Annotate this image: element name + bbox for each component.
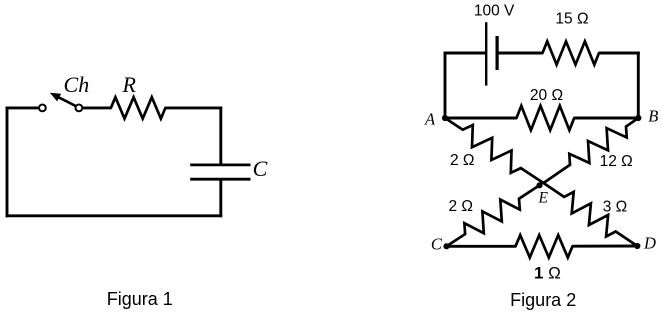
battery short plate (-): [496, 36, 499, 70]
wire battery to resistor 15 ohm: [497, 52, 542, 55]
switch Ch lever arm: [57, 97, 75, 106]
resistor 12 ohm (B to E): [544, 118, 639, 183]
svg-text:Figura 1: Figura 1: [107, 289, 173, 309]
svg-text:3 Ω: 3 Ω: [603, 199, 628, 216]
wire fig2 top-left horizontal to battery: [444, 52, 487, 55]
svg-text:B: B: [648, 107, 658, 126]
svg-text:2 Ω: 2 Ω: [448, 198, 473, 215]
battery long plate (+): [485, 22, 487, 85]
svg-text:C: C: [253, 156, 268, 181]
switch Ch terminal circle left: [39, 105, 46, 112]
node B: [635, 115, 641, 121]
node C: [443, 243, 449, 249]
resistor 20 ohm: [517, 106, 575, 130]
svg-text:Figura 2: Figura 2: [510, 290, 576, 310]
switch Ch terminal circle right: [76, 105, 83, 112]
capacitor C top plate: [190, 163, 250, 166]
wire fig1 left side: [6, 107, 9, 218]
wire fig2 top-right vertical: [637, 52, 640, 119]
node D: [634, 243, 640, 249]
wire fig2 top-left vertical: [444, 52, 447, 119]
switch Ch lever arrowhead: [50, 93, 61, 102]
svg-text:1 Ω: 1 Ω: [534, 264, 561, 283]
svg-text:R: R: [121, 72, 136, 97]
resistor R: [111, 97, 165, 118]
svg-text:A: A: [424, 109, 436, 128]
wire fig1 bottom: [6, 214, 223, 217]
wire node A to resistor 20 ohm: [444, 117, 517, 120]
svg-text:15 Ω: 15 Ω: [555, 10, 588, 27]
capacitor C bottom plate: [190, 178, 250, 181]
svg-text:D: D: [643, 234, 656, 253]
wire fig1 right side lower: [219, 179, 222, 217]
resistor 1 ohm: [516, 235, 573, 257]
wire node C to resistor 1 ohm: [447, 245, 516, 248]
wire switch to resistor R: [83, 106, 111, 109]
wire resistor 20 ohm to node B: [574, 117, 640, 120]
wire resistor 15 ohm to top-right corner: [599, 52, 640, 55]
svg-text:Ch: Ch: [64, 72, 90, 97]
svg-text:E: E: [537, 189, 548, 206]
wire resistor R to top-right corner: [165, 106, 222, 109]
svg-text:100 V: 100 V: [474, 2, 515, 19]
node E: [536, 182, 542, 188]
svg-text:20 Ω: 20 Ω: [530, 87, 563, 104]
svg-text:12 Ω: 12 Ω: [600, 153, 633, 170]
resistor 15 ohm: [543, 41, 600, 64]
svg-text:C: C: [431, 235, 443, 254]
svg-text:2 Ω: 2 Ω: [450, 152, 475, 169]
wire resistor 1 ohm to node D: [573, 245, 638, 248]
wire fig1 top-left to switch: [6, 106, 39, 109]
wire fig1 right side upper: [219, 107, 222, 165]
resistor 2 ohm (C to E): [447, 185, 540, 246]
resistor 3 ohm (D to E): [544, 183, 638, 246]
resistor 2 ohm (A to E): [445, 118, 544, 183]
node A: [442, 115, 448, 121]
